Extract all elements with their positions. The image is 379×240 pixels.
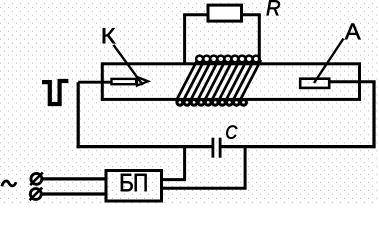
wire: anode lead to right (331, 80, 376, 83)
wire: R-loop right vertical (258, 15, 261, 64)
terminal slash top (30, 173, 43, 186)
capacitor C plate right (219, 138, 222, 158)
label K (103, 28, 116, 43)
label BP (121, 174, 133, 192)
label C (226, 125, 237, 138)
cathode electrode body (112, 79, 137, 84)
wire: left outer vertical (77, 82, 80, 148)
coil L wound around the tube: diagonals (176, 60, 261, 102)
wire: right outer vertical (372, 82, 375, 149)
coil bottom loops (177, 100, 247, 106)
capacitor C plate left (211, 138, 214, 158)
terminal circle top (31, 173, 42, 184)
label A (345, 24, 361, 40)
wire: bottom rail right of capacitor (222, 145, 376, 148)
wire: BP output top (to rail left of C) (162, 147, 185, 180)
wire: R-loop top (183, 13, 261, 16)
resistor R (208, 5, 242, 21)
input voltage U symbol (42, 81, 68, 104)
terminal slash bottom (30, 188, 43, 201)
wire: cathode lead (78, 81, 111, 84)
terminal circle bottom (30, 189, 41, 200)
power supply box BP (106, 171, 162, 202)
pointer line from A to anode (314, 39, 344, 84)
cathode electrode tip (137, 77, 148, 86)
wire: terminal top to BP (42, 177, 106, 180)
wire: R-loop left vertical (183, 15, 186, 64)
label R (267, 0, 280, 15)
anode electrode A (300, 79, 329, 88)
wire: terminal bottom to BP (41, 192, 106, 195)
wire: BP output bottom (to rail right of C) (162, 147, 246, 189)
pointer line from K to cathode (113, 45, 142, 85)
ac source tilde (2, 181, 16, 186)
wire: bottom rail left of capacitor (77, 145, 212, 148)
tube (discharge tube body) (102, 64, 359, 100)
coil top loops (196, 56, 260, 63)
